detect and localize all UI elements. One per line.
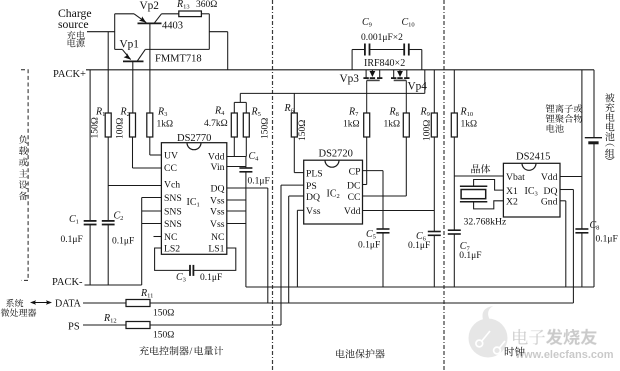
wire R8 to CC pin: [405, 137, 407, 196]
wire PACK- rail left: [85, 284, 142, 286]
svg-text:R11: R11: [140, 288, 153, 300]
svg-text:DS2415: DS2415: [516, 152, 550, 163]
wire PS pin to PS line: [281, 184, 304, 186]
svg-text:150Ω: 150Ω: [260, 118, 270, 139]
wire R7 to DC pin: [366, 137, 368, 185]
svg-text:150Ω: 150Ω: [90, 117, 100, 138]
wire battery supply to Vdd (y93): [240, 92, 424, 94]
svg-text:Vbat: Vbat: [506, 172, 525, 183]
svg-text:150Ω: 150Ω: [153, 331, 174, 341]
svg-text:R10: R10: [460, 107, 474, 119]
transistor Vp1 (PNP FMMT718): [115, 48, 123, 50]
svg-text:0.001μF×2: 0.001μF×2: [361, 33, 403, 43]
svg-text:R12: R12: [103, 313, 117, 325]
svg-text:DS2720: DS2720: [319, 149, 353, 160]
svg-text:R5: R5: [251, 107, 261, 119]
wire DS2415 Vdd to supply: [560, 176, 582, 178]
svg-text:Vp3: Vp3: [340, 73, 360, 85]
wire charge branch down to PACK+ rail: [107, 32, 109, 70]
resistor R8 1kohm: [403, 113, 409, 137]
svg-text:PS: PS: [68, 322, 80, 333]
label 电池保护器: [336, 349, 384, 358]
wire R4/R5 top bar: [234, 101, 246, 103]
svg-text:Vch: Vch: [164, 180, 180, 191]
svg-text:DS2770: DS2770: [177, 133, 211, 144]
wire Vp1 collector line: [145, 48, 209, 50]
resistor R4 4.7kohm: [233, 137, 235, 157]
svg-text:150Ω: 150Ω: [153, 309, 174, 319]
svg-text:PLS: PLS: [306, 169, 323, 180]
capacitor C5 0.1uF: [377, 228, 390, 230]
wire R3 bottom to UV pin: [149, 137, 151, 155]
svg-text:0.1μF: 0.1μF: [459, 251, 481, 261]
svg-text:R9: R9: [420, 107, 430, 119]
svg-text:R13: R13: [176, 0, 190, 11]
svg-text:Vin: Vin: [211, 162, 225, 173]
wire emitter rail vertical: [114, 14, 116, 50]
wire Vp2 collector to R13: [162, 13, 179, 15]
wire R6 to PLS: [293, 137, 295, 173]
capacitor C4 0.1uF: [245, 157, 247, 169]
resistor R9 100ohm: [433, 70, 435, 113]
svg-text:Vdd: Vdd: [541, 172, 558, 183]
svg-text:DATA: DATA: [55, 299, 82, 310]
svg-text:360Ω: 360Ω: [196, 0, 217, 10]
svg-text:R4: R4: [214, 106, 225, 118]
svg-text:0.1μF: 0.1μF: [112, 237, 134, 247]
svg-text:32.768kHz: 32.768kHz: [464, 217, 507, 228]
capacitor C9 0.001uF: [351, 50, 353, 70]
svg-text:1kΩ: 1kΩ: [157, 120, 174, 130]
section divider 2 (protector / clock): [443, 0, 445, 371]
wire Vch pin to R1/C2 node: [108, 185, 161, 187]
wire branch to PACK+ rail: [209, 31, 227, 33]
resistor R13 360ohm: [179, 11, 202, 17]
wire DS2415 Gnd to ground: [560, 200, 566, 202]
resistor R10 1kohm: [453, 70, 455, 113]
svg-text:Vss: Vss: [210, 196, 225, 207]
svg-text:4.7kΩ: 4.7kΩ: [204, 119, 228, 129]
resistor R11 150ohm: [126, 300, 150, 307]
svg-text:R3: R3: [157, 107, 167, 119]
DATA wire: [83, 302, 573, 304]
svg-text:100Ω: 100Ω: [116, 118, 126, 139]
svg-text:150Ω: 150Ω: [298, 120, 308, 141]
capacitor C1 0.1uF: [89, 70, 91, 221]
svg-text:SNS: SNS: [164, 219, 182, 230]
svg-text:DQ: DQ: [211, 184, 225, 195]
resistor R5 150ohm: [245, 137, 247, 157]
wire C3 to LS1: [193, 248, 235, 270]
svg-text:NC: NC: [164, 232, 177, 243]
svg-text:0.1μF: 0.1μF: [61, 235, 83, 245]
crystal Y1 32.768kHz: [460, 185, 487, 187]
wire R2 bottom to CC pin: [132, 137, 134, 168]
svg-text:0.1μF: 0.1μF: [358, 241, 380, 251]
svg-text:R1: R1: [95, 107, 105, 119]
section divider 1 (charge controller / protector): [272, 0, 274, 371]
resistor R1 150ohm: [107, 70, 109, 113]
resistor R6 150ohm: [293, 93, 295, 113]
svg-text:R6: R6: [284, 103, 295, 115]
IC U3 DS2415 box: [503, 163, 560, 217]
svg-text:0.1μF: 0.1μF: [596, 235, 618, 245]
svg-text:DQ: DQ: [544, 186, 558, 197]
label 充电控制器/电量计: [139, 346, 188, 355]
wire R9 to DS2720 Vdd and C6: [433, 137, 435, 232]
svg-text:C2: C2: [114, 211, 124, 223]
load-side dashed bracket: [21, 70, 28, 281]
svg-text:C5: C5: [366, 229, 376, 241]
wire R1 bottom to Vch node: [107, 137, 109, 186]
svg-text:C9: C9: [362, 17, 372, 29]
svg-text:UV: UV: [164, 151, 178, 162]
svg-text:DQ: DQ: [306, 192, 320, 203]
wire R13 right to collector line: [201, 13, 209, 15]
resistor R12 150ohm: [126, 322, 150, 329]
watermark logo: [469, 306, 508, 358]
svg-text:Vp1: Vp1: [120, 39, 139, 51]
IC U2 DS2720 box: [304, 160, 363, 224]
ground rail right: [246, 286, 594, 288]
capacitor C3 0.1uF: [189, 265, 191, 276]
wire R10 to Vbat and C7: [453, 137, 455, 230]
resistor R7 1kohm: [364, 113, 370, 137]
label 系统微处理器: [6, 299, 23, 307]
wire DQ pin to DATA: [227, 187, 268, 189]
svg-text:Vp4: Vp4: [408, 81, 428, 93]
svg-text:CC: CC: [348, 192, 361, 203]
svg-text:PACK+: PACK+: [53, 69, 86, 80]
svg-text:SNS: SNS: [164, 207, 182, 218]
wire LS2 to C3: [155, 248, 190, 270]
svg-text:www.elecfans.com: www.elecfans.com: [515, 349, 614, 361]
wire charge source to transistors: [87, 31, 115, 33]
svg-text:C3: C3: [176, 272, 186, 284]
svg-text:100Ω: 100Ω: [422, 120, 432, 141]
wires Vss pins to C4 column: [227, 199, 246, 201]
capacitor C8 0.1uF: [581, 177, 583, 230]
svg-text:1kΩ: 1kΩ: [343, 120, 360, 130]
wire DS2415 DQ to DATA: [560, 189, 573, 191]
svg-text:CC: CC: [164, 163, 177, 174]
svg-text:/: /: [190, 347, 193, 358]
label 锂离子或锂聚合物电池: [546, 104, 583, 113]
resistor R3 1kohm: [147, 113, 153, 137]
svg-text:PACK-: PACK-: [52, 277, 83, 288]
wire SNS bus: [141, 198, 143, 286]
wire PACK+ rail: [86, 69, 594, 71]
label 负载或主设备: [19, 135, 27, 144]
svg-text:Gnd: Gnd: [541, 197, 558, 208]
svg-text:1kΩ: 1kΩ: [384, 120, 401, 130]
svg-text:X1: X1: [506, 186, 518, 197]
wire Vp2 emitter top: [115, 13, 134, 15]
wire Vss pin to ground: [297, 209, 303, 211]
svg-text:R7: R7: [348, 107, 359, 119]
svg-text:Vss: Vss: [210, 219, 225, 230]
svg-text:NC: NC: [211, 232, 224, 243]
svg-text:LS1: LS1: [208, 244, 224, 255]
wire stub up to Vdd supply wire: [239, 93, 241, 102]
transistor Vp3 (IRF840): [365, 70, 367, 78]
svg-text:CP: CP: [349, 167, 361, 178]
capacitor C6 0.1uF: [428, 231, 441, 233]
svg-text:Vdd: Vdd: [208, 152, 225, 163]
resistor R2 100ohm: [130, 113, 136, 137]
svg-text:Vp2: Vp2: [140, 0, 160, 12]
capacitor C7 0.1uF: [448, 229, 461, 231]
svg-text:0.1μF: 0.1μF: [200, 273, 222, 283]
label 晶体: [471, 164, 490, 173]
IC U1 DS2770 box: [161, 143, 226, 255]
svg-text:source: source: [58, 18, 89, 31]
capacitor C10 0.001uF: [370, 49, 405, 51]
svg-text:DC: DC: [347, 181, 360, 192]
svg-text:Vss: Vss: [306, 206, 321, 217]
battery BT1: [593, 70, 595, 138]
svg-text:1kΩ: 1kΩ: [461, 120, 478, 130]
watermark text 电子发烧友: [513, 329, 597, 345]
svg-text:0.1μF: 0.1μF: [248, 177, 270, 187]
svg-text:Vss: Vss: [210, 207, 225, 218]
svg-text:R8: R8: [389, 107, 399, 119]
PS wire: [83, 324, 281, 326]
svg-text:4403: 4403: [162, 21, 183, 32]
transistor Vp4 (IRF840): [393, 70, 395, 78]
svg-text:C4: C4: [249, 151, 260, 163]
wire Vin pin: [227, 166, 246, 168]
svg-text:R2: R2: [120, 107, 130, 119]
svg-text:PS: PS: [306, 181, 317, 192]
svg-text:0.1μF: 0.1μF: [408, 241, 430, 251]
wire DQ pin to DATA: [289, 195, 304, 197]
NC stub: [154, 236, 162, 238]
transistor Vp2 (PNP 4403): [134, 14, 146, 23]
wire Vdd pin to C4 node: [227, 156, 246, 158]
svg-text:SNS: SNS: [164, 193, 182, 204]
svg-text:C10: C10: [402, 17, 415, 29]
svg-text:FMMT718: FMMT718: [155, 54, 202, 65]
svg-text:C1: C1: [69, 214, 79, 226]
svg-text:X2: X2: [506, 197, 518, 208]
label 被充电电池(组): [605, 93, 614, 102]
svg-text:LS2: LS2: [164, 244, 180, 255]
capacitor C2 0.1uF: [107, 186, 109, 221]
svg-text:IRF840×2: IRF840×2: [364, 58, 405, 69]
label 时钟: [505, 347, 525, 357]
svg-text:Vdd: Vdd: [344, 206, 361, 217]
wire CP pin to C5: [363, 170, 384, 172]
